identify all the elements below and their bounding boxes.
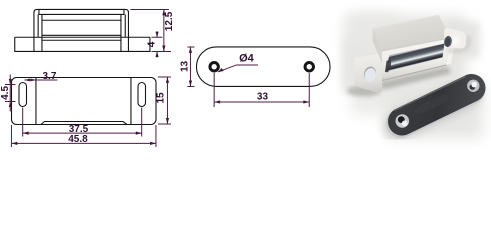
plate top edge light line xyxy=(394,77,466,111)
dim 4.5 ticks xyxy=(5,84,16,101)
ext lines 33 xyxy=(214,73,309,107)
inner wall right xyxy=(120,20,122,51)
mid wall left xyxy=(37,14,39,37)
lid line B xyxy=(42,14,121,20)
body top face far-edge highlight xyxy=(373,15,439,28)
ext line base top (4) xyxy=(151,36,162,38)
plate shadow xyxy=(398,93,467,126)
right slot xyxy=(138,83,146,107)
body right end face xyxy=(447,38,456,65)
arrows 37.5 xyxy=(23,132,29,135)
ext line bottom xyxy=(151,50,171,52)
dim 37.5 line xyxy=(23,132,142,134)
plate surface reflection streaks xyxy=(413,92,451,117)
plate right hole dark xyxy=(470,84,476,90)
front-top crease line xyxy=(382,38,450,51)
dim 33 line xyxy=(214,101,309,103)
arrows 15 xyxy=(166,77,169,83)
dim 13 line xyxy=(189,47,191,86)
magnet assembly xyxy=(385,44,445,73)
inner wall line left xyxy=(35,78,37,125)
body outer shell xyxy=(34,9,129,51)
body top face xyxy=(373,15,451,51)
arrow Ø4 xyxy=(218,68,224,72)
ext lines 37.5 xyxy=(23,107,142,136)
ext lines 13 xyxy=(187,47,194,86)
dim 3.7 line xyxy=(24,79,57,81)
leader Ø4 xyxy=(218,65,258,72)
step line xyxy=(42,39,121,41)
left tab hole xyxy=(363,67,377,83)
plate left hole ring xyxy=(396,114,410,128)
bottom recess xyxy=(41,122,127,125)
svg-text:3.7: 3.7 xyxy=(42,71,56,82)
plate right hole highlight xyxy=(471,82,477,88)
inner wall left xyxy=(41,20,43,51)
haze left of catch xyxy=(342,40,372,92)
arrow 4 top xyxy=(155,32,158,38)
left slot xyxy=(19,83,27,107)
plate silver rim xyxy=(401,90,471,124)
svg-text:13: 13 xyxy=(179,60,190,72)
left tab hole rim xyxy=(363,65,378,82)
haze behind plate xyxy=(388,82,483,138)
plan outer body xyxy=(12,78,157,125)
svg-text:33: 33 xyxy=(257,92,269,103)
dims of plate view xyxy=(187,47,309,107)
plate right hole ring xyxy=(467,80,479,92)
right tab hole inner xyxy=(445,37,451,46)
left hole xyxy=(210,63,218,71)
lid line A xyxy=(39,9,124,14)
haze around right tab xyxy=(448,22,480,58)
svg-text:4.5: 4.5 xyxy=(0,86,11,100)
arrows 45.8 xyxy=(11,142,17,145)
left tab shadow xyxy=(347,86,381,97)
arrows 13 xyxy=(189,47,192,53)
plate left hole highlight xyxy=(402,121,408,127)
right tab shadow xyxy=(447,36,469,51)
mid wall right xyxy=(124,14,126,37)
flange right tab xyxy=(444,28,466,49)
arrow 12.5 top xyxy=(162,9,165,15)
opening bottom line xyxy=(42,34,121,36)
haze behind catch xyxy=(348,16,466,88)
arrows 33 xyxy=(214,100,220,103)
inner wall line right xyxy=(130,78,132,125)
body bottom edge line xyxy=(382,65,447,81)
magnet left end dark blob xyxy=(385,59,391,72)
dim line 4 xyxy=(156,31,158,57)
ext lines 15 xyxy=(158,77,171,124)
dim 15 line xyxy=(166,77,168,124)
right hole xyxy=(305,63,313,71)
catch shadow xyxy=(379,67,451,91)
dim 45.8 line xyxy=(11,142,156,144)
svg-text:15: 15 xyxy=(155,92,166,104)
plate dark body xyxy=(402,88,472,122)
right tab highlight xyxy=(453,36,459,46)
body left end face xyxy=(373,28,383,63)
svg-text:45.8: 45.8 xyxy=(68,134,88,145)
plate left hole dark xyxy=(398,116,405,123)
arrows 4.5 xyxy=(9,79,12,85)
svg-text:12.5: 12.5 xyxy=(164,11,175,31)
svg-text:4: 4 xyxy=(146,41,157,47)
body front face xyxy=(382,38,450,81)
svg-text:Ø4: Ø4 xyxy=(239,52,255,64)
ext lines 45.8 xyxy=(11,125,156,147)
dim line 12.5 xyxy=(163,9,165,51)
arrow 4 bottom xyxy=(155,51,158,57)
arrows 3.7 xyxy=(24,79,30,82)
arrow 12.5 bottom xyxy=(162,46,165,52)
base plate xyxy=(15,37,150,51)
right tab hole xyxy=(443,35,452,47)
ext line top (12.5) xyxy=(130,8,169,10)
plate outline xyxy=(196,47,330,86)
flange left tab xyxy=(354,54,382,93)
dim 4.5 line xyxy=(9,74,11,111)
